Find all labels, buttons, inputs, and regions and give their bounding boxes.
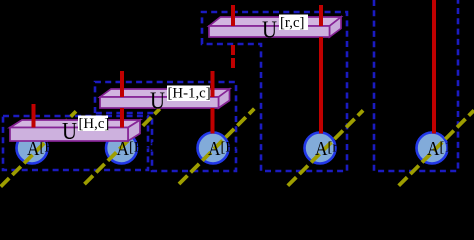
svg-text:[H]: [H] <box>40 140 60 156</box>
svg-text:[H-2]: [H-2] <box>221 140 253 156</box>
svg-text:[H-1,c]: [H-1,c] <box>168 86 211 102</box>
svg-text:U: U <box>150 89 165 115</box>
svg-text:A: A <box>117 139 130 160</box>
svg-text:[1]: [1] <box>440 140 457 156</box>
svg-text:[r]: [r] <box>328 140 343 156</box>
svg-text:A: A <box>315 139 328 160</box>
svg-text:A: A <box>427 139 440 160</box>
svg-text:[H,c]: [H,c] <box>79 116 110 132</box>
svg-text:[r,c]: [r,c] <box>280 15 304 31</box>
svg-text:[H-1]: [H-1] <box>129 140 161 156</box>
svg-text:U: U <box>62 119 77 145</box>
svg-text:A: A <box>27 139 40 160</box>
svg-text:U: U <box>262 18 277 44</box>
svg-text:A: A <box>208 139 221 160</box>
